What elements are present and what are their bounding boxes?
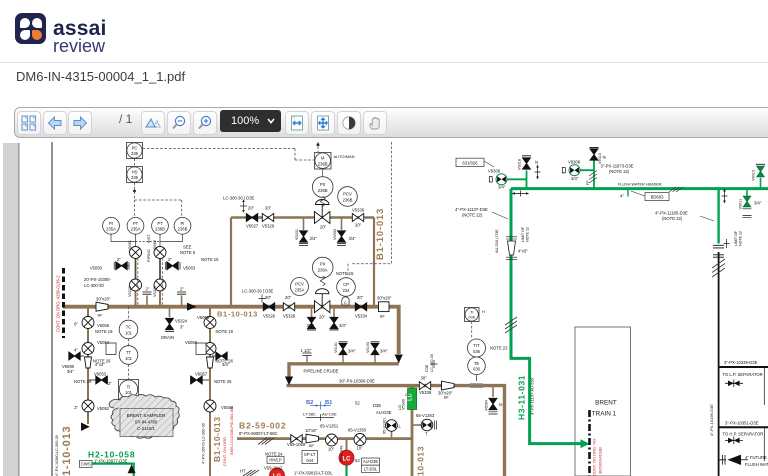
instrument bracket lines: [111, 169, 323, 279]
svg-text:2": 2": [117, 257, 121, 262]
svg-text:Is: Is: [603, 155, 606, 160]
reducer 30x20 left: [96, 302, 108, 311]
control valve PV-235A: [315, 289, 330, 313]
svg-text:65-V1361: 65-V1361: [383, 418, 387, 434]
valve V5324 drain: [166, 318, 174, 329]
svg-text:SY-IN-4780: SY-IN-4780: [135, 420, 158, 425]
pipeline crude upper run: [289, 364, 399, 377]
svg-text:B1-10-013: B1-10-013: [375, 208, 386, 260]
instrument PT 236B: [152, 217, 169, 234]
valve V5331: [300, 231, 308, 242]
svg-text:SEE: SEE: [183, 245, 192, 250]
controller LC red: [339, 450, 354, 465]
drain stub V5324: [169, 307, 171, 317]
instrument box TS/SPP left: [106, 343, 116, 355]
signal PC-HS: [134, 159, 136, 167]
svg-text:H: H: [482, 309, 485, 314]
svg-text:PCV: PCV: [343, 192, 352, 197]
svg-text:20": 20": [405, 393, 411, 397]
svg-text:10-013: 10-013: [416, 446, 426, 476]
flow arrow down into crude run: [395, 355, 403, 364]
pipeline crude lower run 30"-PX-10300: [287, 386, 505, 476]
B2/B1 interface mark: [310, 402, 331, 410]
svg-text:CONT. ON DRG. 4280-0136-2: CONT. ON DRG. 4280-0136-2: [56, 275, 61, 332]
svg-text:3/4": 3/4": [571, 176, 579, 181]
svg-text:TE: TE: [474, 361, 480, 366]
svg-text:236B: 236B: [155, 227, 165, 232]
svg-text:TC: TC: [126, 325, 132, 330]
svg-text:B1-10-013: B1-10-013: [217, 310, 258, 319]
svg-text:1"-PX-59015-LT-D3L: 1"-PX-59015-LT-D3L: [294, 471, 333, 476]
svg-text:2": 2": [180, 287, 184, 292]
svg-text:20": 20": [265, 206, 272, 211]
svg-text:B1: B1: [325, 400, 333, 406]
controller LG red (bottom): [270, 468, 285, 476]
svg-text:LT-D3L: LT-D3L: [364, 466, 378, 471]
svg-text:V59-1059: V59-1059: [287, 442, 306, 447]
svg-text:4"-PX-10196-D3E: 4"-PX-10196-D3E: [709, 404, 714, 436]
control valve PV-236B: [315, 200, 330, 224]
green line into box: [574, 442, 581, 445]
instrument PC 235: [127, 143, 143, 159]
BRENT TRAIN 1 box: [575, 327, 631, 476]
svg-text:2": 2": [168, 257, 172, 262]
instrument M 236B auto/man: [315, 153, 332, 170]
svg-text:3/4": 3/4": [222, 362, 230, 367]
B2 pipe hatch: [258, 438, 274, 445]
svg-text:PI: PI: [181, 221, 185, 226]
svg-text:2": 2": [146, 287, 150, 292]
reducer B2 10x8: [306, 434, 319, 443]
svg-text:V5061: V5061: [128, 240, 132, 251]
flange sym right drop: [722, 192, 728, 201]
valve V5063: [167, 265, 169, 267]
svg-text:3/4": 3/4": [349, 236, 357, 241]
flange sym below header: [515, 191, 526, 197]
svg-text:AU-53X | D3E: AU-53X | D3E: [495, 229, 499, 253]
instrument TIT 036: [468, 339, 486, 357]
funnel strainer left column: [85, 357, 92, 368]
svg-text:V5181: V5181: [334, 342, 338, 353]
junction dot: [133, 190, 136, 193]
valve 65-V1350: [354, 434, 366, 446]
valve V5050: [127, 265, 129, 267]
instrument HS 235: [127, 167, 143, 183]
svg-text:V9057: V9057: [195, 372, 208, 377]
65-V1363 stub: [412, 424, 421, 426]
svg-text:036: 036: [469, 316, 475, 320]
instrument TI 036: [465, 308, 480, 322]
upper control loop pipe: [231, 216, 374, 219]
header logo: [15, 13, 46, 44]
signal V5061/V5062 trace: [138, 258, 163, 305]
valve 65-V1361: [386, 420, 398, 432]
svg-text:M: M: [321, 156, 325, 161]
svg-text:HS: HS: [132, 170, 138, 175]
svg-text:3/4": 3/4": [307, 323, 315, 328]
svg-text:V5339: V5339: [419, 390, 432, 395]
svg-text:0365-110-D330-PID-004-001: 0365-110-D330-PID-004-001: [230, 406, 234, 455]
svg-text:101: 101: [125, 356, 133, 361]
svg-text:V5323: V5323: [153, 286, 157, 297]
arrow into BRENT TRAIN 1: [581, 439, 590, 448]
instrument TI 101: [119, 380, 139, 400]
future flush stub: [719, 459, 726, 461]
signal TI036-TIT: [471, 322, 473, 340]
svg-text:4"-PX-10979-LC-300-30: 4"-PX-10979-LC-300-30: [202, 423, 206, 464]
flow arrow left column bottom: [81, 423, 90, 431]
svg-text:PX: PX: [320, 262, 326, 267]
svg-text:20": 20": [320, 225, 327, 230]
svg-text:236B: 236B: [318, 188, 328, 193]
stub V9011: [746, 189, 748, 196]
svg-text:1"-PX-10977-D3E: 1"-PX-10977-D3E: [94, 459, 128, 464]
svg-text:V5058: V5058: [221, 405, 234, 410]
LC drain to CWS: [345, 465, 347, 476]
B2-59-002 header: [237, 437, 412, 440]
svg-text:V5050: V5050: [90, 266, 103, 271]
svg-text:10": 10": [328, 447, 335, 452]
svg-text:LC-300-30: LC-300-30: [84, 283, 104, 288]
svg-text:NOTE 19: NOTE 19: [95, 329, 113, 334]
svg-text:631/026: 631/026: [462, 160, 478, 165]
svg-text:CONT. ON DRG.: CONT. ON DRG.: [222, 436, 227, 466]
break sym crude: [431, 360, 438, 368]
svg-text:NOTE 25: NOTE 25: [214, 379, 232, 384]
LC-300-30 break sym upper: [240, 202, 247, 210]
svg-text:4": 4": [620, 194, 624, 199]
svg-text:8"-PX-59007-LT-58C: 8"-PX-59007-LT-58C: [239, 431, 278, 436]
svg-text:LC-300-30 | D3E: LC-300-30 | D3E: [223, 196, 255, 201]
box BD603: [645, 193, 669, 201]
battery limit dash left: [62, 268, 65, 338]
stub V9309/V9310: [580, 160, 594, 189]
svg-text:PIPELINE CRUDE: PIPELINE CRUDE: [304, 369, 339, 374]
svg-text:4"x3": 4"x3": [95, 362, 105, 367]
stub bowtie V5333: [341, 218, 343, 231]
instrument C box: [342, 297, 349, 305]
LO valve green box: [408, 388, 417, 410]
svg-text:V5326: V5326: [263, 314, 276, 319]
svg-text:3": 3": [74, 405, 78, 410]
instrument TE 036: [468, 357, 486, 375]
svg-text:044: 044: [306, 458, 314, 463]
svg-text:TT: TT: [126, 350, 132, 355]
strainer on green riser: [508, 241, 516, 255]
svg-text:036: 036: [473, 367, 481, 372]
svg-text:B1-10-013: B1-10-013: [212, 416, 222, 462]
signal TC-TT-TI chain: [128, 307, 130, 380]
svg-text:10"x8": 10"x8": [305, 428, 318, 433]
instrument PX 236A: [312, 257, 333, 278]
svg-text:4"-PX-11185-D3E: 4"-PX-11185-D3E: [655, 211, 688, 216]
valve V5059: [204, 317, 216, 329]
line 4"-PX-10196-D3E: [718, 252, 720, 476]
box 631/026: [456, 158, 484, 166]
svg-text:DRAIN: DRAIN: [161, 335, 174, 340]
svg-text:BD603: BD603: [651, 195, 664, 200]
svg-text:V5055: V5055: [97, 323, 110, 328]
svg-text:V5330: V5330: [402, 399, 406, 410]
svg-text:1-10-013: 1-10-013: [61, 426, 73, 476]
box SP-LT 044: [302, 451, 318, 464]
instrument PCV 236B: [338, 187, 358, 207]
left instrument column x=88: [87, 307, 89, 424]
valve V5333: [338, 231, 346, 242]
svg-text:B2-59-002: B2-59-002: [239, 421, 286, 431]
svg-text:V5328: V5328: [283, 314, 296, 319]
svg-text:(NOTE 22): (NOTE 22): [662, 216, 683, 221]
CWS supply line H2-10-058: [92, 464, 134, 476]
svg-text:3/4": 3/4": [754, 201, 762, 206]
dashed instrument signal lines: [129, 142, 472, 380]
svg-text:NOTE 24: NOTE 24: [265, 452, 283, 457]
svg-text:236B: 236B: [178, 227, 188, 232]
spectacle break green riser bottom: [713, 245, 724, 248]
svg-text:30"-PX-10300-D3E: 30"-PX-10300-D3E: [339, 379, 375, 384]
valve V9053: [88, 379, 96, 381]
branch to LP separator: [719, 366, 768, 368]
svg-text:235A: 235A: [295, 287, 305, 292]
svg-text:LO: LO: [398, 405, 402, 410]
capillary squiggle PX236A: [320, 276, 325, 286]
svg-text:235: 235: [131, 175, 139, 180]
svg-text:V9318: V9318: [518, 159, 522, 170]
svg-text:V5063: V5063: [183, 266, 196, 271]
instrument PI 236B: [174, 217, 191, 234]
funnel strainer right column: [207, 357, 214, 368]
svg-text:V9309: V9309: [568, 160, 581, 165]
svg-text:CWS: CWS: [81, 462, 91, 467]
vent stub 2": [146, 296, 148, 307]
svg-text:235A: 235A: [131, 227, 141, 232]
valve V9011: [743, 196, 750, 206]
svg-text:036: 036: [473, 349, 481, 354]
svg-text:BF: BF: [380, 315, 386, 319]
svg-text:3829/G94103B: 3829/G94103B: [598, 447, 603, 474]
svg-text:4": 4": [74, 348, 78, 353]
thermowell tick crude: [470, 384, 483, 387]
branch to HP separator: [719, 426, 768, 428]
svg-text:LT-58C: LT-58C: [303, 412, 316, 417]
svg-text:236B: 236B: [318, 162, 328, 167]
svg-text:LC-300-30: LC-300-30: [430, 354, 434, 372]
future flush arrow: [728, 455, 742, 465]
svg-text:NOTE 5: NOTE 5: [180, 250, 196, 255]
svg-text:INST.: INST.: [147, 234, 151, 243]
svg-text:4"-PX-10380-LC-300-30: 4"-PX-10380-LC-300-30: [55, 435, 59, 476]
reducer box 30x20 right: [379, 302, 390, 312]
svg-text:4" FUTURE: 4" FUTURE: [745, 455, 767, 460]
svg-text:V5333: V5333: [333, 229, 337, 240]
main 20" crude line B1-10-013: [63, 307, 399, 354]
stub V9010: [760, 178, 762, 189]
svg-text:V9010: V9010: [752, 170, 756, 181]
svg-text:30"x20": 30"x20": [377, 296, 392, 301]
svg-text:4"-PX-11137-D3E: 4"-PX-11137-D3E: [455, 207, 488, 212]
svg-text:NOTE 15: NOTE 15: [336, 271, 354, 276]
svg-text:10": 10": [357, 446, 364, 451]
stub to LC controller: [346, 439, 348, 451]
V6064 stub: [492, 386, 494, 397]
valve V5056: [204, 400, 216, 412]
flow arrow on main line: [187, 303, 197, 311]
svg-text:HT: HT: [240, 469, 246, 474]
valve V5055: [82, 317, 94, 329]
svg-text:AUTO/MAN: AUTO/MAN: [334, 154, 355, 159]
LT-58C interface mark: [306, 414, 334, 421]
valve 65-V1351: [326, 434, 338, 446]
svg-text:D3E: D3E: [373, 403, 381, 408]
svg-text:101: 101: [125, 390, 133, 395]
svg-text:SP-LT: SP-LT: [304, 452, 316, 457]
svg-text:PIPING: PIPING: [147, 249, 151, 262]
svg-text:65-V1350: 65-V1350: [348, 428, 367, 433]
svg-text:TIT: TIT: [473, 343, 480, 348]
svg-text:C-2110/1: C-2110/1: [137, 426, 155, 431]
svg-text:BF: BF: [444, 396, 450, 400]
svg-text:234: 234: [343, 288, 351, 293]
svg-text:30"x20": 30"x20": [96, 297, 111, 302]
stub V9308: [508, 171, 527, 189]
svg-text:LIMIT OF: LIMIT OF: [521, 226, 525, 242]
wire riser left of upper pipe: [230, 218, 232, 307]
LP sep valve: [725, 382, 743, 384]
svg-text:FF: FF: [586, 180, 590, 185]
stub 4" bleed: [627, 189, 629, 197]
instrument PI 235A: [103, 217, 120, 234]
svg-text:V9308: V9308: [488, 169, 501, 174]
svg-text:20'-PX-10300-: 20'-PX-10300-: [84, 277, 111, 282]
svg-text:1 1/2": 1 1/2": [301, 348, 312, 353]
instrument PCV 235A: [291, 278, 309, 296]
stub bowtie V5331: [303, 218, 305, 231]
svg-text:3/4": 3/4": [339, 323, 347, 328]
svg-text:NOTE 25: NOTE 25: [74, 379, 92, 384]
svg-text:TO L.P. SEPARATOR: TO L.P. SEPARATOR: [723, 372, 763, 377]
heat trace hatch on riser: [505, 317, 517, 333]
svg-text:PT: PT: [157, 221, 163, 226]
valve V5336: [352, 214, 363, 222]
svg-text:V5054: V5054: [97, 340, 110, 345]
valve V6064: [489, 398, 497, 409]
instrument PT 235A: [127, 217, 144, 234]
svg-text:TI: TI: [127, 384, 131, 389]
valve V9097: [212, 355, 216, 357]
signal CP drop: [347, 264, 349, 276]
svg-text:6": 6": [74, 322, 78, 327]
svg-text:65-V1351: 65-V1351: [320, 424, 339, 429]
svg-text:V5329: V5329: [262, 224, 275, 229]
flush water header: [511, 187, 768, 190]
svg-text:20": 20": [355, 223, 362, 228]
svg-text:LC-300-30 | D3E: LC-300-30 | D3E: [242, 289, 274, 294]
svg-text:20": 20": [319, 315, 326, 320]
svg-text:BRENT: BRENT: [595, 400, 617, 407]
valve V5052: [82, 400, 94, 412]
valve V9308 ball: [496, 174, 507, 185]
valve V5193: [371, 343, 379, 354]
vent V5181: [342, 355, 344, 364]
svg-text:V6064: V6064: [485, 400, 489, 411]
reducer crude 30x20: [442, 381, 455, 390]
battery limit dashdot in box: [588, 410, 591, 476]
svg-text:NOTE 23: NOTE 23: [490, 346, 508, 351]
svg-text:V9310: V9310: [598, 153, 602, 164]
instrument CP 234: [337, 278, 356, 297]
valve V5332 below main: [330, 317, 338, 328]
arrow up CWS: [128, 464, 136, 473]
svg-text:V5059: V5059: [197, 315, 210, 320]
svg-text:Is: Is: [535, 160, 538, 165]
toolbar: [14, 107, 768, 138]
valve V59-1059: [291, 435, 302, 443]
valve V5329: [262, 214, 273, 222]
svg-text:PI: PI: [109, 221, 113, 226]
svg-text:V5027: V5027: [246, 224, 259, 229]
svg-text:C: C: [344, 300, 347, 305]
svg-text:PT: PT: [133, 221, 139, 226]
svg-text:V5058: V5058: [185, 340, 198, 345]
valve V9010: [757, 166, 764, 176]
stub below main V5330: [311, 307, 313, 317]
svg-text:V59-1042: V59-1042: [264, 466, 283, 471]
svg-text:3"-PX-11873-D3E: 3"-PX-11873-D3E: [601, 164, 634, 169]
svg-text:FLUSH WATER HEADER: FLUSH WATER HEADER: [618, 183, 662, 187]
riser x=412 through LO valve: [411, 386, 414, 476]
svg-text:3/4": 3/4": [498, 185, 506, 190]
svg-text:NOTE 19: NOTE 19: [216, 329, 234, 334]
valve 65-V1363: [421, 419, 433, 431]
svg-text:235: 235: [131, 151, 139, 156]
svg-text:2": 2": [108, 381, 112, 386]
stub below main V5332: [333, 307, 335, 317]
instrument TC 101: [119, 320, 138, 339]
svg-text:65-V1348: 65-V1348: [340, 446, 344, 462]
vent stub 2": [181, 296, 183, 307]
svg-text:236B: 236B: [343, 197, 353, 202]
svg-text:3/4": 3/4": [310, 236, 318, 241]
svg-text:NOTE 15: NOTE 15: [201, 257, 219, 262]
svg-text:B2: B2: [306, 400, 313, 406]
valve V5062: [154, 247, 166, 259]
svg-text:NOTE 22: NOTE 22: [739, 231, 743, 246]
svg-text:T: T: [425, 432, 428, 437]
valve V5323: [154, 279, 166, 291]
hatch FF: [589, 171, 597, 184]
svg-text:V9011: V9011: [739, 199, 743, 210]
signal HS down: [135, 183, 182, 218]
flange sym green/black break: [724, 239, 730, 248]
svg-text:TRAIN 1: TRAIN 1: [592, 411, 617, 418]
box AU-D3E: [362, 458, 380, 465]
valve V9057: [202, 379, 210, 381]
vent V5193: [374, 355, 376, 364]
wire riser right of upper pipe: [373, 218, 375, 307]
svg-text:20": 20": [265, 295, 272, 300]
svg-text:236A: 236A: [318, 267, 328, 272]
svg-text:30": 30": [421, 376, 428, 381]
svg-text:TO H.P. SEPARATOR: TO H.P. SEPARATOR: [723, 432, 764, 437]
flange sym V9308: [535, 168, 541, 177]
HP sep valve: [725, 439, 743, 441]
valve V9309 ball: [569, 165, 580, 176]
svg-text:BF: BF: [98, 314, 104, 318]
svg-text:V5324: V5324: [175, 319, 188, 324]
svg-text:HH/LP: HH/LP: [269, 458, 282, 463]
valve V9310: [590, 149, 598, 160]
box LT-D3L: [362, 465, 380, 472]
